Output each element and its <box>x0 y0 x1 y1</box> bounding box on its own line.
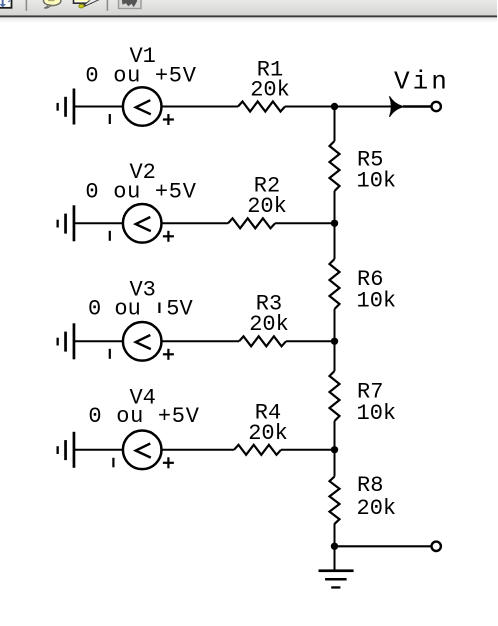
toolbar icon: comment bubble <box>44 0 61 8</box>
svg-text:0 ou +5V: 0 ou +5V <box>85 180 196 205</box>
svg-text:20k: 20k <box>247 194 287 219</box>
svg-text:0 ou: 0 ou <box>88 297 141 322</box>
wire V3 to R3 <box>162 340 240 342</box>
resistor R7 <box>330 371 340 421</box>
V3 plus polarity mark <box>163 349 174 360</box>
bottom output terminal pin circle <box>432 542 441 551</box>
node D junction dot <box>331 446 338 453</box>
wire node A to Vin arrow <box>335 106 392 108</box>
ground symbol (V4 minus, rotated) <box>57 432 76 468</box>
wire R4 to node D <box>281 449 335 451</box>
wire R7 to node D <box>334 421 336 450</box>
wire V1 to R1 <box>162 106 239 108</box>
V1 minus polarity tick <box>109 114 111 124</box>
toolbar icon: import arrow button <box>119 0 142 9</box>
svg-text:10k: 10k <box>357 401 397 426</box>
ladder wire node A to R5 <box>334 107 336 142</box>
wire R1 to node A <box>285 106 335 108</box>
wire ground to V4 <box>75 449 123 451</box>
wire R2 to node B <box>275 222 335 224</box>
wire R5 to node B <box>334 191 336 223</box>
Vin output arrow <box>390 96 405 117</box>
ground symbol (bottom) <box>319 569 354 588</box>
label V3 value 0 ou (broken plus) 5V <box>88 297 194 322</box>
wire ground to V2 <box>75 222 123 224</box>
resistor R8 <box>330 477 340 524</box>
svg-text:R8: R8 <box>357 473 383 498</box>
wire R6 to node C <box>334 309 336 341</box>
resistor R4 <box>234 445 281 455</box>
resistor R3 <box>239 336 286 346</box>
toolbar separator 2 <box>107 0 109 11</box>
V2 plus polarity mark <box>163 231 174 242</box>
voltage source V3 (circle with < ) <box>123 322 162 361</box>
node C junction dot <box>331 338 338 345</box>
resistor R5 <box>330 141 340 191</box>
node E junction dot <box>331 543 338 550</box>
voltage source V1 (circle with < ) <box>123 87 162 126</box>
svg-text:20k: 20k <box>248 421 288 446</box>
svg-text:20k: 20k <box>357 496 397 521</box>
wire node E to ground <box>334 546 336 570</box>
node A junction dot <box>331 103 338 110</box>
ladder wire node C to R7 <box>334 341 336 371</box>
wire arrow to Vin terminal <box>403 105 432 108</box>
svg-text:20k: 20k <box>249 312 289 337</box>
ground symbol (V2 minus, rotated) <box>57 205 76 241</box>
wire ground to V1 <box>75 106 123 108</box>
svg-text:0 ou +5V: 0 ou +5V <box>85 64 196 89</box>
wire V2 to R2 <box>162 222 229 224</box>
node B junction dot <box>331 220 338 227</box>
voltage source V4 (circle with < ) <box>123 431 162 470</box>
svg-text:0 ou +5V: 0 ou +5V <box>88 404 199 429</box>
resistor R2 <box>228 218 275 228</box>
V2 minus polarity tick <box>109 231 111 241</box>
toolbar background strip <box>0 0 497 23</box>
ladder wire node B to R6 <box>334 223 336 259</box>
voltage source V2 (circle with < ) <box>123 204 162 243</box>
resistor R1 <box>238 102 285 112</box>
svg-text:10k: 10k <box>357 169 397 194</box>
wire R3 to node C <box>286 340 335 342</box>
toolbar icon: paste/insert button (cut off) <box>0 0 12 8</box>
V1 plus polarity mark <box>163 114 174 125</box>
V4 plus polarity mark <box>163 457 174 468</box>
wire V4 to R4 <box>162 449 235 451</box>
wire R8 to node E <box>334 524 336 547</box>
toolbar separator 1 <box>26 0 28 11</box>
ladder wire node D to R8 <box>334 450 336 477</box>
svg-text:5V: 5V <box>166 297 193 322</box>
V3 minus polarity tick <box>109 349 111 359</box>
svg-text:20k: 20k <box>250 78 290 103</box>
svg-text:10k: 10k <box>357 289 397 314</box>
svg-text:Vin: Vin <box>394 67 450 97</box>
resistor R6 <box>330 259 340 309</box>
wire node E to output terminal <box>335 545 432 547</box>
Vin terminal pin circle <box>432 102 441 111</box>
ground symbol (V3 minus, rotated) <box>57 323 76 359</box>
toolbar icon: edit comment (note + pencil) <box>74 0 101 8</box>
V4 minus polarity tick <box>112 458 114 468</box>
ground symbol (V1 minus, rotated) <box>57 89 76 125</box>
wire ground to V3 <box>75 340 123 342</box>
